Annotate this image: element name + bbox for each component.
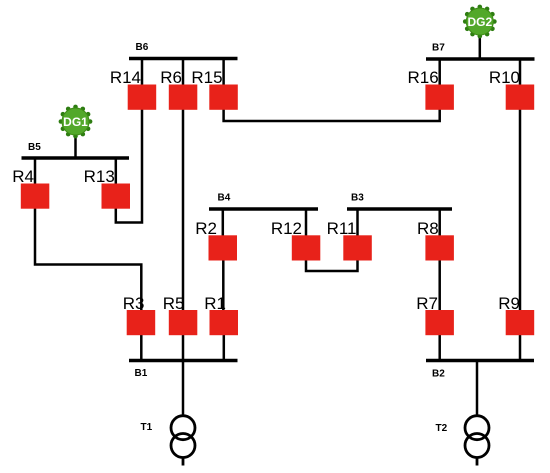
- svg-text:T1: T1: [141, 422, 153, 433]
- wire B6 to R15: [222, 59, 225, 87]
- relay R14: [128, 85, 157, 110]
- relay R5: [169, 310, 198, 335]
- wire R4 to R3: [35, 208, 141, 312]
- svg-text:B2: B2: [432, 369, 445, 380]
- svg-text:R16: R16: [408, 68, 439, 87]
- DG unit DG2: [463, 5, 497, 39]
- svg-text:B1: B1: [135, 368, 148, 379]
- wire B7 to R16: [438, 59, 441, 86]
- svg-text:R5: R5: [163, 294, 185, 313]
- relay R13: [102, 184, 131, 209]
- wire R3 to bus B1: [140, 334, 143, 361]
- bus B4: [209, 207, 318, 210]
- relay R9: [506, 310, 535, 335]
- relay R15: [209, 85, 238, 110]
- svg-text:R4: R4: [12, 167, 34, 186]
- wire R1 to bus B1: [223, 334, 226, 361]
- wire B5 to R13: [115, 158, 118, 184]
- svg-text:R1: R1: [204, 294, 226, 313]
- svg-text:R15: R15: [191, 68, 222, 87]
- svg-text:R6: R6: [160, 68, 182, 87]
- wire DG2 to bus B7: [479, 34, 482, 59]
- wire R2 to R1: [222, 260, 225, 313]
- wire B3 to R8: [438, 209, 441, 237]
- bus B2: [426, 359, 534, 362]
- relay R2: [209, 235, 238, 260]
- relay R7: [425, 310, 454, 335]
- wire R14 to R13: [116, 109, 142, 223]
- wire B5 to R4: [34, 158, 37, 184]
- bus B6: [129, 57, 238, 60]
- svg-text:R3: R3: [123, 294, 145, 313]
- relay R4: [21, 184, 50, 209]
- bus B7: [426, 57, 535, 60]
- relay R11: [343, 235, 372, 260]
- wire B3 to R11: [356, 209, 359, 237]
- wire B4 to R12: [305, 209, 308, 237]
- wire bus B1 to transformer T1: [182, 361, 185, 417]
- svg-text:R11: R11: [327, 219, 357, 238]
- svg-text:R14: R14: [110, 68, 141, 87]
- svg-text:R12: R12: [271, 219, 302, 238]
- relay R3: [127, 310, 156, 335]
- bus B1: [129, 359, 238, 362]
- transformer T1: [171, 416, 195, 466]
- wire R6 to R5: [182, 109, 185, 313]
- svg-text:R10: R10: [489, 68, 520, 87]
- svg-text:R8: R8: [417, 219, 439, 238]
- wire B6 to R6: [182, 59, 185, 87]
- wire bus B2 to transformer T2: [476, 361, 479, 417]
- svg-text:B7: B7: [432, 43, 445, 54]
- DG unit DG1: [59, 105, 93, 139]
- svg-text:B6: B6: [136, 42, 149, 53]
- wire R9 to bus B2: [519, 334, 522, 361]
- svg-text:B3: B3: [351, 193, 364, 204]
- svg-text:DG2: DG2: [467, 15, 492, 29]
- relay R6: [169, 85, 198, 110]
- svg-text:DG1: DG1: [63, 115, 88, 129]
- relay R1: [210, 310, 239, 335]
- wire R5 to bus B1: [182, 334, 185, 361]
- wire R12 to R11: [306, 260, 358, 272]
- svg-text:B4: B4: [218, 193, 231, 204]
- wire B6 to R14: [141, 59, 144, 87]
- svg-text:R9: R9: [498, 294, 520, 313]
- svg-text:T2: T2: [436, 423, 448, 434]
- svg-text:R13: R13: [84, 167, 115, 186]
- bus B5: [22, 156, 130, 159]
- relay R16: [425, 85, 454, 110]
- svg-text:R2: R2: [195, 219, 217, 238]
- relay R8: [425, 235, 454, 260]
- transformer T2: [465, 416, 489, 466]
- wire B4 to R2: [222, 209, 225, 237]
- wire DG1 to bus B5: [74, 134, 77, 158]
- svg-text:B5: B5: [28, 142, 41, 153]
- relay R12: [292, 235, 321, 260]
- relay R10: [506, 85, 535, 110]
- wire B7 to R10: [519, 59, 522, 86]
- wire R15 to R16: [224, 109, 440, 122]
- wire R7 to bus B2: [438, 334, 441, 361]
- wire R8 to R7: [438, 260, 441, 313]
- svg-text:R7: R7: [416, 294, 438, 313]
- wire R10 to R9: [519, 109, 522, 313]
- bus B3: [347, 207, 452, 210]
